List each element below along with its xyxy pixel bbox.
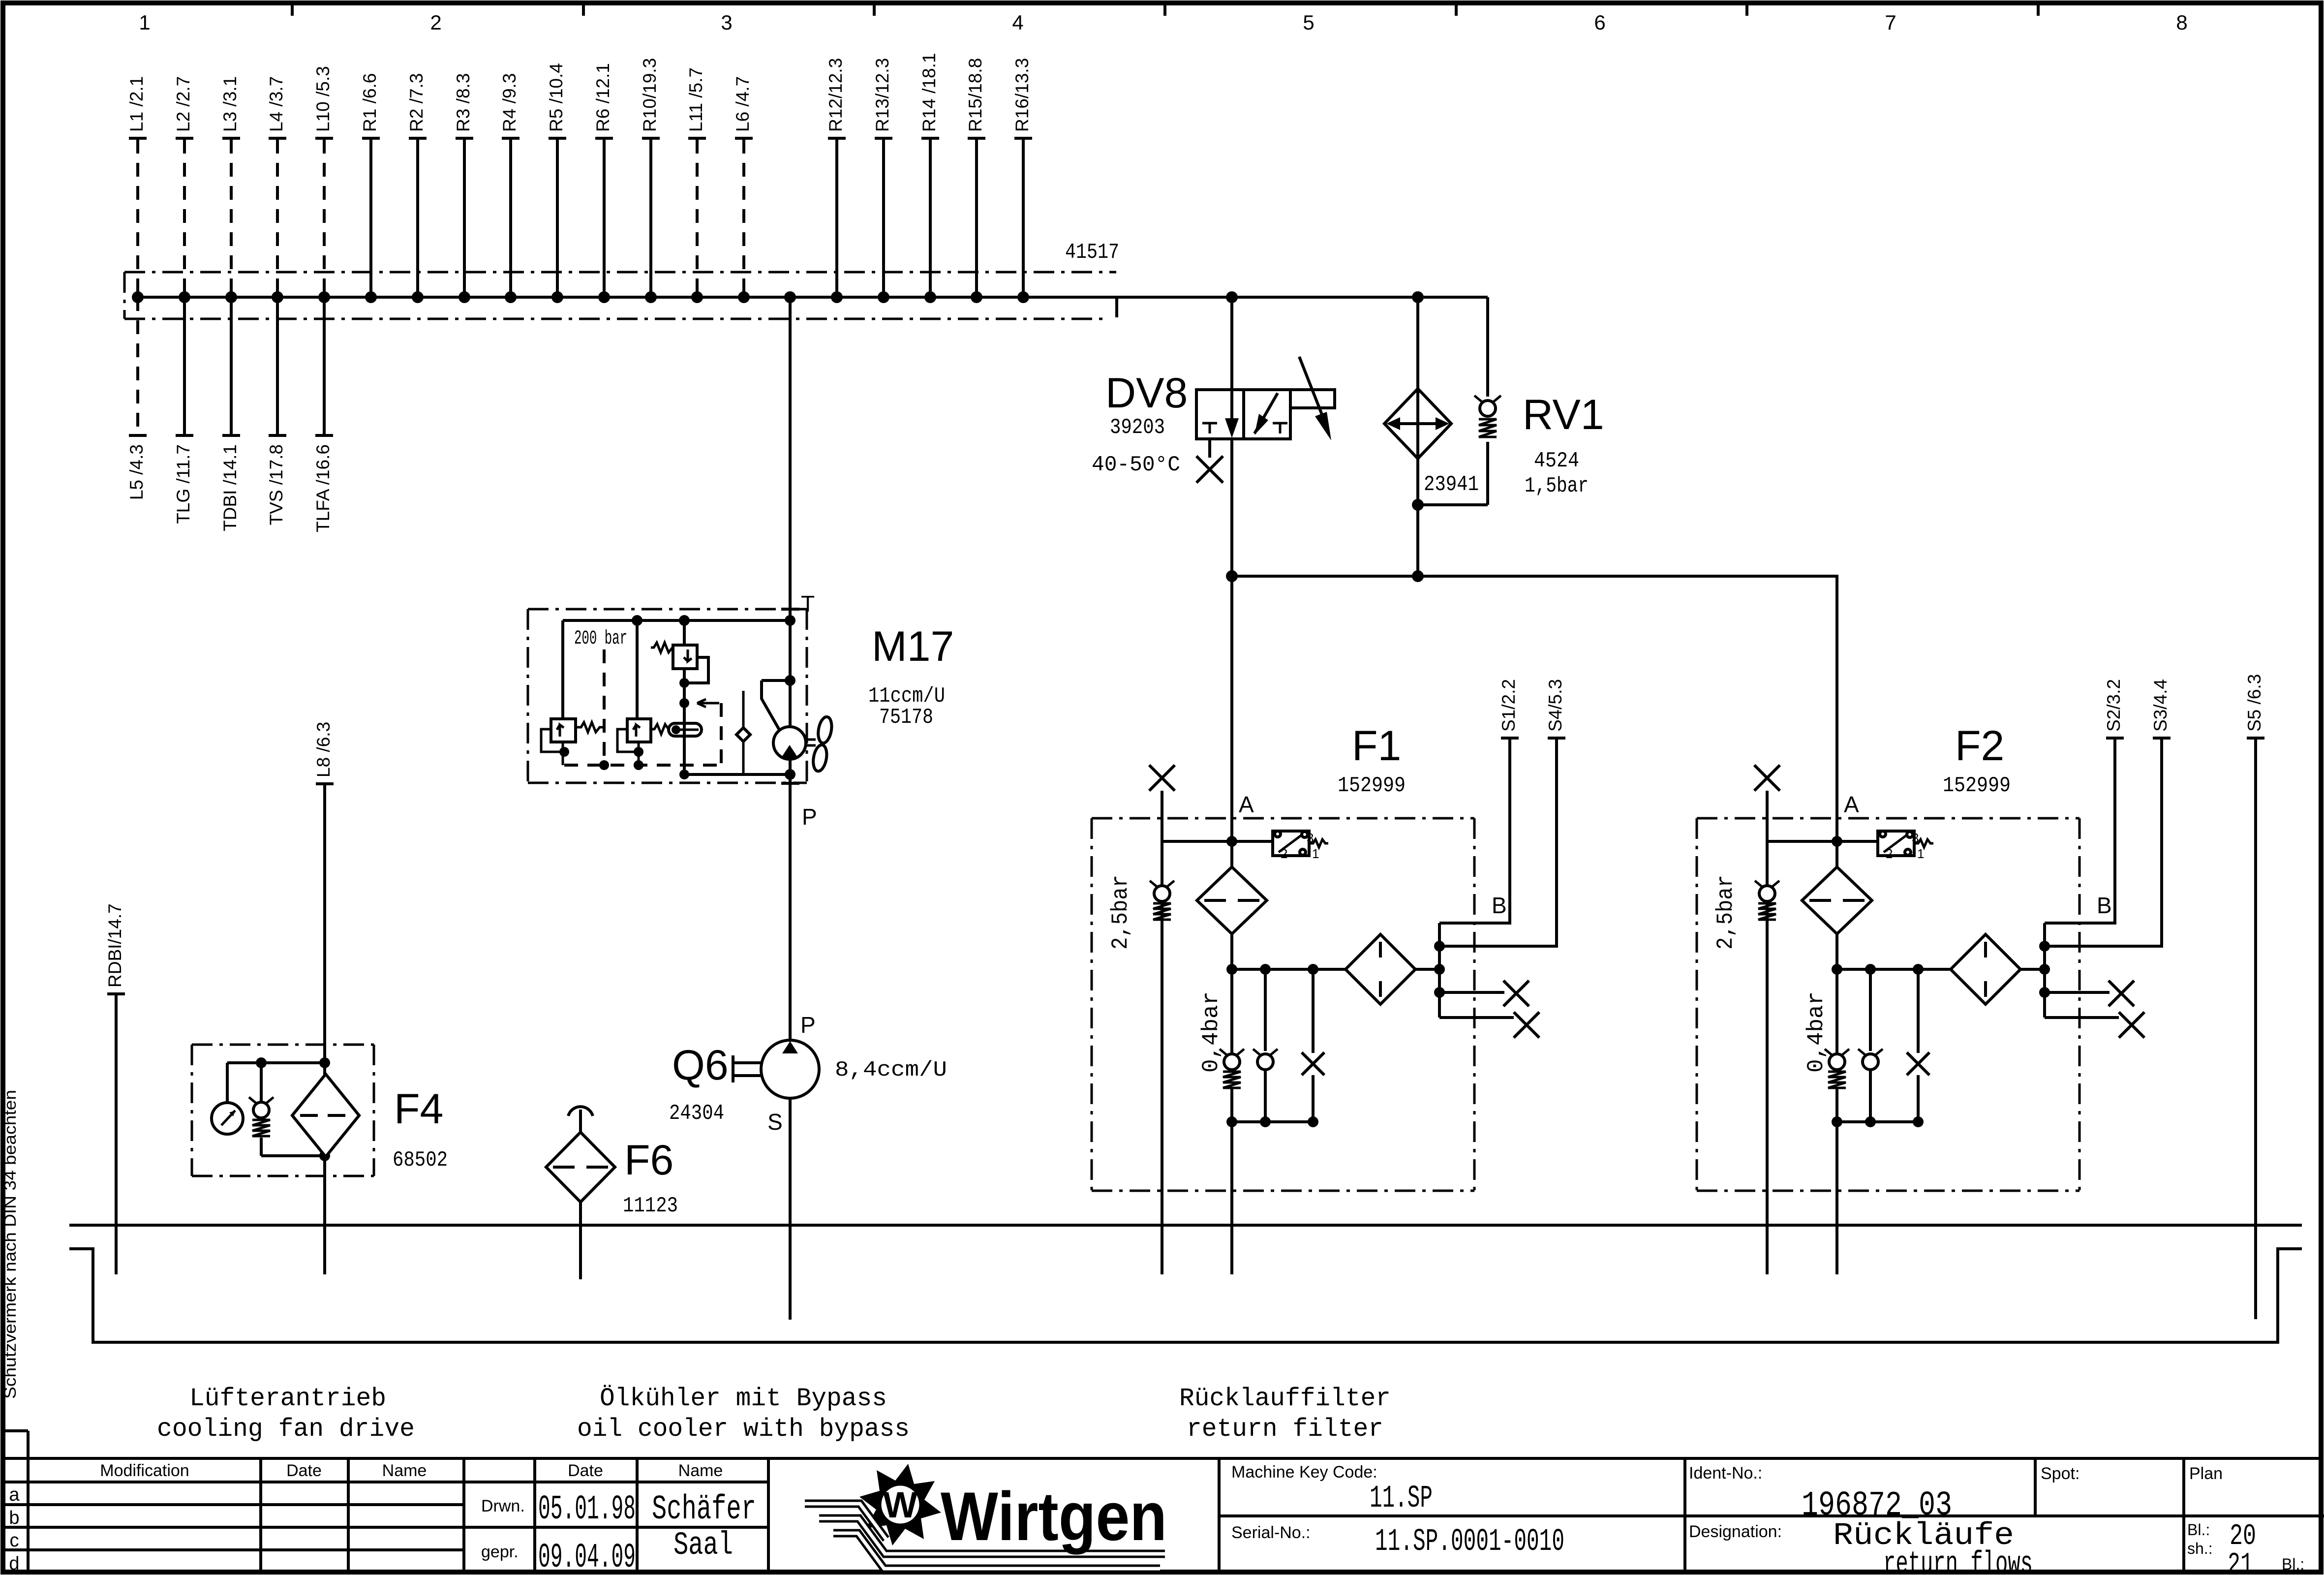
svg-text:1: 1 [139, 11, 150, 34]
svg-text:8: 8 [2176, 11, 2187, 34]
svg-text:F4: F4 [394, 1085, 443, 1133]
svg-text:c: c [10, 1530, 19, 1551]
svg-text:L2 /2.7: L2 /2.7 [173, 76, 193, 132]
svg-text:RV1: RV1 [1523, 391, 1604, 438]
svg-text:Q6: Q6 [672, 1042, 729, 1089]
wire riser L6 to bus [733, 76, 753, 303]
svg-text:DV8: DV8 [1105, 370, 1188, 417]
wire riser R12 to bus [826, 58, 846, 303]
wire riser L11 to bus [686, 67, 706, 303]
svg-text:23941: 23941 [1424, 472, 1479, 497]
wire riser R15 to bus [965, 58, 985, 303]
svg-text:gepr.: gepr. [481, 1543, 519, 1561]
svg-text:S: S [767, 1109, 783, 1135]
wire M17 bottom manifold [679, 769, 795, 780]
tank outline [69, 1249, 2302, 1342]
svg-text:R2 /7.3: R2 /7.3 [406, 73, 427, 132]
wire riser R6 to bus [593, 63, 613, 303]
svg-text:75178: 75178 [879, 705, 933, 730]
svg-text:Rücklauffilter: Rücklauffilter [1179, 1384, 1391, 1413]
wire riser R16 to bus [1012, 58, 1032, 303]
Wirtgen logo swoosh [805, 1504, 1165, 1569]
svg-text:Ident-No.:: Ident-No.: [1689, 1464, 1762, 1482]
svg-text:41517: 41517 [1065, 240, 1119, 265]
svg-text:4524: 4524 [1534, 449, 1579, 473]
filter bypass diamond 23941 [1384, 389, 1451, 459]
junction dots second bus [1226, 570, 1424, 582]
svg-text:Name: Name [382, 1461, 427, 1480]
svg-text:7: 7 [1885, 11, 1896, 34]
svg-text:R1 /6.6: R1 /6.6 [360, 73, 380, 132]
wire stub L5 below bus [126, 297, 147, 500]
svg-text:S3/4.4: S3/4.4 [2150, 679, 2171, 732]
column numbers 1-8 [139, 11, 2187, 34]
svg-text:TVS /17.8: TVS /17.8 [266, 444, 286, 525]
svg-text:3: 3 [721, 11, 732, 34]
flow regulator [669, 723, 702, 736]
valve DV8 thermostatic 3-2 valve body [1196, 357, 1335, 440]
wire riser R4 to bus [499, 73, 520, 303]
svg-text:4: 4 [1012, 11, 1023, 34]
pump Q6 [733, 1040, 819, 1098]
wire riser L10 to bus [313, 66, 333, 303]
junction dot [1412, 499, 1424, 511]
svg-text:R12/12.3: R12/12.3 [826, 58, 846, 132]
relief valve 2 (middle) [617, 620, 671, 765]
wire stub TLG below bus [173, 297, 193, 524]
svg-text:W: W [883, 1484, 917, 1525]
junction dots on bus at M17/DV8/cooler columns [784, 291, 1424, 303]
svg-text:Lüfterantrieb: Lüfterantrieb [189, 1384, 386, 1413]
svg-text:6: 6 [1594, 11, 1605, 34]
node 41517 collector box (dash-dot) [124, 272, 1117, 319]
svg-text:S2/3.2: S2/3.2 [2104, 679, 2124, 732]
svg-text:68502: 68502 [393, 1148, 448, 1173]
wire Q6 suction to tank [789, 1098, 792, 1320]
svg-text:TLG /11.7: TLG /11.7 [173, 444, 193, 524]
wire main return bus [138, 296, 1488, 299]
svg-text:S1/2.2: S1/2.2 [1498, 679, 1519, 732]
wire stubs into tank [116, 1225, 581, 1279]
wire F4 bottom manifold [261, 1150, 330, 1161]
port T tick and label [781, 591, 815, 617]
relief valve 1 (left) [541, 620, 603, 765]
check valve small diamond [736, 691, 750, 774]
filter F4 block (dash-dot enclosure) [192, 1045, 374, 1176]
wire DV8 column valve to second bus [1230, 439, 1233, 576]
breather filter F6 [546, 1107, 615, 1279]
wire riser L2 to bus [173, 76, 193, 303]
svg-text:40-50°C: 40-50°C [1092, 453, 1180, 477]
wire M17 main column (T line) [789, 297, 792, 1040]
svg-text:L5 /4.3: L5 /4.3 [126, 444, 147, 500]
hydraulic motor circle with fan [773, 716, 833, 772]
filter diamond F4 [292, 1074, 359, 1157]
column tick marks on top border [292, 2, 2038, 16]
svg-text:oil cooler with bypass: oil cooler with bypass [577, 1415, 910, 1444]
wire riser R2 to bus [406, 73, 427, 303]
header labels [100, 1461, 723, 1480]
svg-text:F6: F6 [624, 1137, 673, 1184]
svg-text:Drwn.: Drwn. [481, 1497, 525, 1515]
svg-text:Name: Name [678, 1461, 723, 1480]
svg-text:S5 /6.3: S5 /6.3 [2244, 674, 2264, 732]
svg-text:Bl.:: Bl.: [2282, 1555, 2304, 1573]
throttle to pilot [564, 699, 721, 770]
wire stub TVS below bus [266, 297, 286, 525]
svg-text:L10 /5.3: L10 /5.3 [313, 66, 333, 132]
svg-text:L8 /6.3: L8 /6.3 [313, 722, 334, 777]
svg-text:R10/19.3: R10/19.3 [640, 58, 660, 132]
displacement lever [762, 675, 795, 730]
svg-text:09.04.09: 09.04.09 [538, 1539, 636, 1575]
svg-text:R5 /10.4: R5 /10.4 [546, 63, 566, 132]
tank return rail [69, 1224, 2302, 1227]
wire riser L4 to bus [266, 76, 286, 303]
pilot line (dashed) [603, 649, 606, 765]
svg-text:S4/5.3: S4/5.3 [1545, 679, 1565, 732]
wire second return bus to filters [1232, 576, 1837, 867]
wire stub TDBI below bus [220, 297, 240, 531]
svg-text:21: 21 [2228, 1548, 2253, 1575]
svg-text:cooling fan drive: cooling fan drive [157, 1415, 415, 1444]
svg-text:24304: 24304 [669, 1101, 724, 1126]
svg-text:RDBI/14.7: RDBI/14.7 [105, 903, 125, 988]
wire RV1 column from bus [1486, 297, 1489, 505]
svg-text:5: 5 [1303, 11, 1314, 34]
wire M17 internal top manifold [563, 619, 790, 622]
svg-text:R3 /8.3: R3 /8.3 [453, 73, 473, 132]
svg-text:1,5bar: 1,5bar [1525, 474, 1589, 498]
svg-text:sh.:: sh.: [2187, 1540, 2213, 1557]
wire riser R14 to bus [919, 53, 939, 303]
svg-text:F1: F1 [1352, 722, 1401, 770]
svg-text:Saal: Saal [673, 1527, 733, 1564]
svg-text:11123: 11123 [623, 1194, 678, 1218]
svg-text:L11 /5.7: L11 /5.7 [686, 67, 706, 132]
svg-text:Spot:: Spot: [2041, 1464, 2079, 1483]
svg-text:TLFA /16.6: TLFA /16.6 [313, 444, 333, 532]
row letters a b c d [9, 1484, 20, 1574]
svg-text:L3 /3.1: L3 /3.1 [220, 76, 240, 132]
svg-text:Plan: Plan [2189, 1464, 2223, 1483]
svg-text:T: T [801, 591, 815, 617]
pilot valve (top small) [651, 620, 708, 774]
wire riser S5 to tank [2244, 674, 2264, 1319]
svg-text:11.SP.0001-0010: 11.SP.0001-0010 [1375, 1524, 1564, 1560]
svg-text:Serial-No.:: Serial-No.: [1231, 1523, 1311, 1542]
wire riser R1 to bus [360, 73, 380, 303]
svg-text:R14 /18.1: R14 /18.1 [919, 53, 939, 132]
svg-text:M17: M17 [872, 623, 954, 670]
wire riser R5 to bus [546, 63, 566, 303]
svg-text:return filter: return filter [1187, 1415, 1383, 1444]
svg-text:Designation:: Designation: [1689, 1522, 1782, 1541]
svg-text:R13/12.3: R13/12.3 [872, 58, 892, 132]
svg-text:Date: Date [568, 1461, 603, 1480]
svg-text:8,4ccm/U: 8,4ccm/U [835, 1058, 947, 1082]
wire cooler column from bus through bypass diamond [1416, 297, 1419, 576]
svg-text:d: d [9, 1553, 19, 1574]
svg-text:TDBI /14.1: TDBI /14.1 [220, 444, 240, 531]
svg-text:Wirtgen: Wirtgen [941, 1478, 1167, 1555]
svg-text:Schutzvermerk nach DIN 34 beac: Schutzvermerk nach DIN 34 beachten [1, 1090, 20, 1399]
svg-text:2: 2 [430, 11, 441, 34]
svg-text:return flows: return flows [1883, 1547, 2033, 1575]
svg-text:Ölkühler mit Bypass: Ölkühler mit Bypass [600, 1384, 887, 1413]
check valve RV1 [1474, 396, 1501, 437]
svg-text:Schäfer: Schäfer [652, 1490, 756, 1529]
junction dots on top manifold [632, 615, 795, 626]
svg-text:P: P [800, 1012, 816, 1038]
wire riser R3 to bus [453, 73, 473, 303]
svg-text:F2: F2 [1955, 722, 2004, 770]
svg-text:200 bar: 200 bar [574, 628, 627, 650]
Wirtgen logo gear [859, 1464, 941, 1545]
pressure gauge [212, 1063, 243, 1134]
wire stub TLFA below bus [313, 297, 333, 532]
wire F4 top manifold [227, 1057, 330, 1068]
wire riser R10 to bus [640, 58, 660, 303]
svg-text:L4 /3.7: L4 /3.7 [266, 76, 286, 132]
motor M17 fan drive block (dash-dot enclosure) [528, 609, 807, 783]
title block grid [2, 1431, 2324, 1573]
wire riser RDBI to tank [105, 903, 125, 1274]
wire riser R13 to bus [872, 58, 892, 303]
svg-text:R16/13.3: R16/13.3 [1012, 58, 1032, 132]
return filter F2 [1697, 576, 2171, 1274]
svg-text:05.01.98: 05.01.98 [538, 1490, 636, 1529]
svg-text:a: a [9, 1484, 20, 1505]
svg-text:Date: Date [286, 1461, 322, 1480]
svg-text:b: b [9, 1508, 19, 1528]
wire DV8 column from bus to valve [1230, 297, 1233, 390]
wire riser L8 to F4 [313, 722, 334, 1075]
svg-text:P: P [802, 804, 817, 830]
return filter F1 [1092, 576, 1565, 1274]
svg-text:39203: 39203 [1110, 415, 1165, 440]
wire riser L3 to bus [220, 76, 240, 303]
svg-text:R4 /9.3: R4 /9.3 [499, 73, 520, 132]
svg-text:L6 /4.7: L6 /4.7 [733, 76, 753, 132]
svg-text:L1 /2.1: L1 /2.1 [126, 76, 147, 132]
wire riser L1 to bus [126, 76, 147, 303]
svg-text:R6 /12.1: R6 /12.1 [593, 63, 613, 132]
DV8 drain stub with plug [1196, 439, 1223, 483]
svg-text:Bl.:: Bl.: [2187, 1521, 2210, 1539]
wire RV1 bottom connect [1418, 503, 1488, 506]
check valve of F4 [249, 1063, 274, 1156]
wire L8 below F4 to tank [323, 1157, 326, 1274]
port P tick and label [781, 783, 817, 830]
svg-text:Machine Key Code:: Machine Key Code: [1231, 1463, 1377, 1482]
svg-text:Modification: Modification [100, 1461, 189, 1480]
svg-text:11.SP: 11.SP [1370, 1481, 1433, 1516]
svg-text:R15/18.8: R15/18.8 [965, 58, 985, 132]
